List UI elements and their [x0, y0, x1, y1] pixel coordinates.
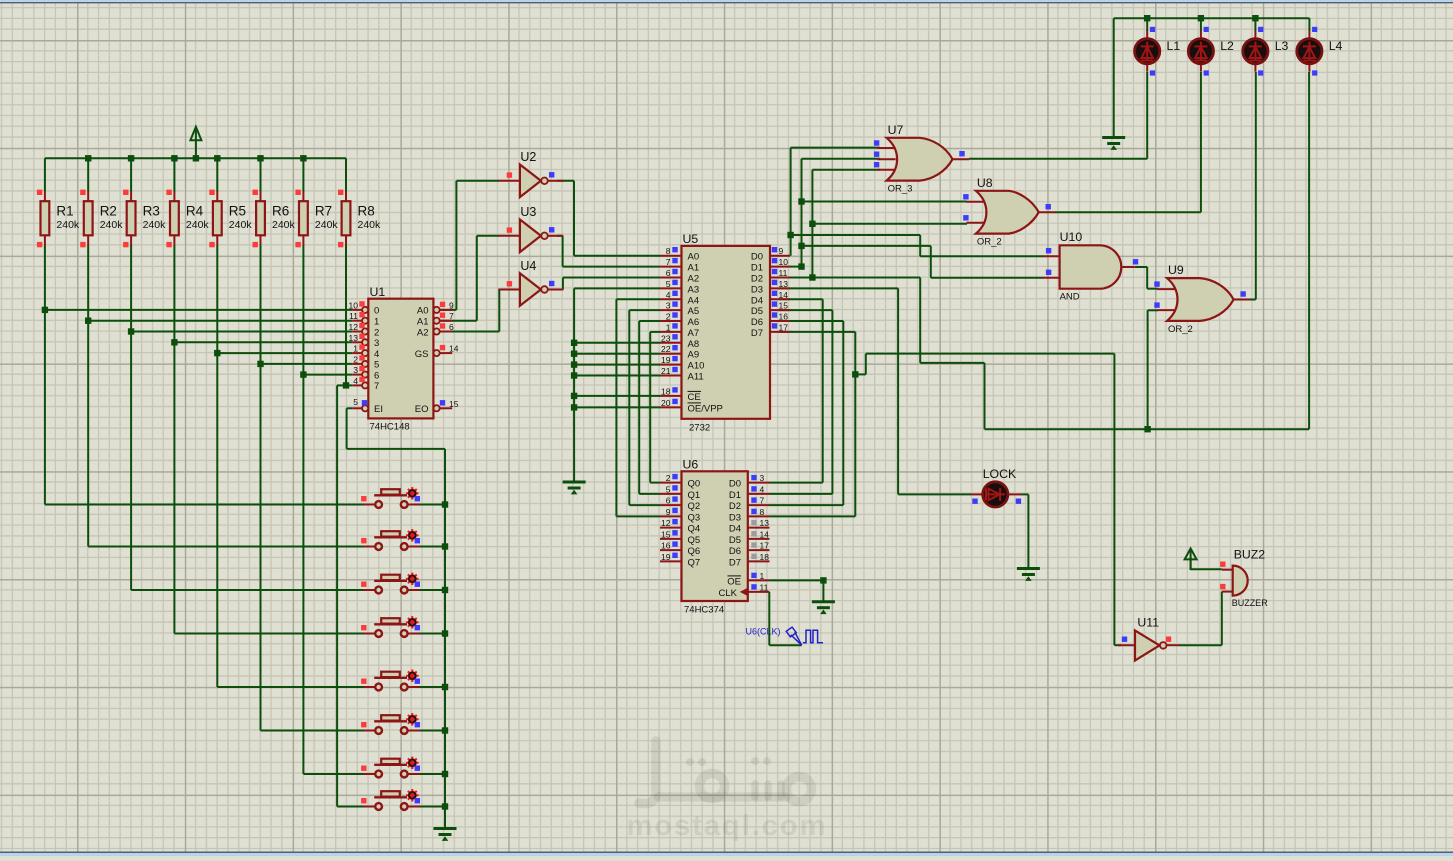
svg-text:19: 19 [661, 552, 671, 562]
svg-text:14: 14 [779, 290, 789, 300]
svg-text:15: 15 [779, 301, 789, 311]
svg-text:240k: 240k [100, 219, 124, 231]
svg-text:20: 20 [661, 398, 671, 408]
svg-text:D7: D7 [751, 328, 763, 339]
svg-text:3: 3 [760, 473, 765, 483]
svg-text:D7: D7 [729, 557, 741, 568]
svg-text:240k: 240k [186, 219, 210, 231]
svg-text:18: 18 [661, 386, 671, 396]
svg-text:D0: D0 [729, 479, 741, 490]
svg-text:OE: OE [727, 576, 741, 587]
svg-text:17: 17 [779, 322, 789, 332]
svg-text:1: 1 [374, 317, 379, 328]
svg-text:U10: U10 [1060, 230, 1083, 244]
svg-text:U11: U11 [1137, 616, 1159, 630]
svg-text:D4: D4 [729, 524, 741, 535]
svg-text:A4: A4 [688, 295, 700, 306]
svg-text:D3: D3 [751, 284, 763, 295]
svg-text:4: 4 [374, 349, 379, 360]
svg-text:5: 5 [374, 360, 379, 371]
svg-text:R7: R7 [315, 204, 332, 219]
svg-text:Q4: Q4 [688, 524, 701, 535]
svg-text:11: 11 [779, 268, 788, 278]
svg-text:L2: L2 [1220, 39, 1234, 53]
svg-text:2732: 2732 [689, 423, 710, 434]
svg-text:22: 22 [661, 344, 671, 354]
svg-text:U5: U5 [683, 232, 699, 246]
svg-text:R1: R1 [56, 204, 73, 219]
svg-text:U6: U6 [683, 458, 699, 472]
svg-text:D5: D5 [729, 535, 741, 546]
svg-text:R3: R3 [143, 204, 160, 219]
svg-text:2: 2 [353, 354, 358, 364]
svg-text:19: 19 [661, 355, 671, 365]
svg-text:Q2: Q2 [688, 501, 701, 512]
svg-text:9: 9 [666, 507, 671, 517]
svg-text:12: 12 [349, 322, 359, 332]
svg-text:5: 5 [353, 397, 358, 407]
svg-text:U3: U3 [520, 205, 536, 219]
svg-text:1: 1 [353, 344, 358, 354]
svg-text:16: 16 [779, 312, 789, 322]
svg-text:8: 8 [760, 507, 765, 517]
svg-text:L4: L4 [1329, 39, 1343, 53]
svg-text:6: 6 [666, 496, 671, 506]
svg-text:L1: L1 [1167, 39, 1181, 53]
svg-text:16: 16 [661, 541, 671, 551]
svg-text:23: 23 [661, 333, 671, 343]
svg-text:7: 7 [374, 381, 379, 392]
svg-text:2: 2 [666, 473, 671, 483]
svg-text:6: 6 [374, 370, 379, 381]
svg-text:A1: A1 [688, 263, 700, 274]
svg-text:EI: EI [374, 404, 383, 415]
svg-text:14: 14 [449, 344, 459, 354]
svg-text:7: 7 [449, 311, 454, 321]
svg-text:D5: D5 [751, 306, 763, 317]
svg-text:A2: A2 [417, 327, 429, 338]
svg-text:BUZZER: BUZZER [1232, 598, 1269, 608]
svg-text:D0: D0 [751, 252, 763, 263]
svg-text:9: 9 [449, 300, 454, 310]
svg-text:3: 3 [374, 338, 379, 349]
svg-text:L3: L3 [1275, 39, 1289, 53]
svg-text:4: 4 [666, 290, 671, 300]
svg-text:0: 0 [374, 306, 379, 317]
svg-text:D1: D1 [751, 263, 763, 274]
svg-text:1: 1 [666, 322, 671, 332]
svg-text:A6: A6 [688, 317, 700, 328]
svg-text:U7: U7 [888, 123, 904, 137]
svg-text:6: 6 [666, 268, 671, 278]
svg-text:R2: R2 [100, 204, 117, 219]
svg-text:15: 15 [449, 399, 459, 409]
svg-text:CE: CE [688, 392, 701, 403]
svg-text:240k: 240k [143, 219, 167, 231]
svg-text:A3: A3 [688, 284, 700, 295]
svg-text:D6: D6 [751, 317, 763, 328]
svg-text:Q3: Q3 [688, 512, 701, 523]
svg-text:5: 5 [666, 484, 671, 494]
svg-text:11: 11 [349, 311, 358, 321]
svg-text:11: 11 [760, 582, 769, 592]
svg-text:A9: A9 [688, 350, 700, 361]
svg-text:mostaql.com: mostaql.com [627, 810, 828, 842]
svg-text:D4: D4 [751, 295, 763, 306]
svg-text:R8: R8 [358, 204, 375, 219]
svg-text:240k: 240k [229, 219, 253, 231]
svg-text:A2: A2 [688, 274, 700, 285]
svg-text:Q0: Q0 [688, 479, 701, 490]
svg-text:OR_2: OR_2 [1168, 324, 1193, 335]
svg-text:13: 13 [779, 279, 789, 289]
svg-text:A0: A0 [417, 306, 429, 317]
svg-text:74HC148: 74HC148 [370, 422, 410, 433]
svg-text:8: 8 [666, 246, 671, 256]
svg-text:2: 2 [666, 312, 671, 322]
svg-text:U2: U2 [520, 150, 536, 164]
svg-text:D2: D2 [729, 501, 741, 512]
svg-text:3: 3 [353, 365, 358, 375]
svg-text:U1: U1 [370, 285, 386, 299]
svg-text:9: 9 [779, 246, 784, 256]
svg-text:7: 7 [666, 257, 671, 267]
svg-text:6: 6 [449, 322, 454, 332]
svg-text:240k: 240k [315, 219, 339, 231]
svg-text:AND: AND [1060, 292, 1080, 303]
svg-text:OR_2: OR_2 [977, 237, 1002, 248]
svg-text:A10: A10 [688, 361, 705, 372]
svg-text:18: 18 [760, 552, 770, 562]
svg-text:12: 12 [661, 518, 671, 528]
svg-text:A8: A8 [688, 339, 700, 350]
svg-text:U8: U8 [977, 176, 993, 190]
svg-text:A7: A7 [688, 328, 700, 339]
svg-text:BUZ2: BUZ2 [1234, 548, 1266, 562]
svg-text:21: 21 [661, 366, 671, 376]
svg-text:13: 13 [760, 518, 770, 528]
svg-text:D6: D6 [729, 546, 741, 557]
svg-text:74HC374: 74HC374 [684, 605, 724, 616]
svg-text:A5: A5 [688, 306, 700, 317]
svg-text:15: 15 [661, 529, 671, 539]
svg-text:14: 14 [760, 529, 770, 539]
svg-text:A1: A1 [417, 317, 429, 328]
svg-text:R6: R6 [272, 204, 289, 219]
svg-text:D2: D2 [751, 274, 763, 285]
svg-text:10: 10 [779, 257, 789, 267]
svg-text:Q5: Q5 [688, 535, 701, 546]
svg-text:R5: R5 [229, 204, 246, 219]
svg-text:OE/VPP: OE/VPP [688, 403, 723, 414]
svg-text:2: 2 [374, 327, 379, 338]
svg-text:D3: D3 [729, 512, 741, 523]
svg-text:LOCK: LOCK [983, 467, 1017, 481]
svg-text:U6(CLK): U6(CLK) [746, 627, 781, 637]
svg-text:10: 10 [349, 300, 359, 310]
svg-text:240k: 240k [56, 219, 80, 231]
svg-text:7: 7 [760, 496, 765, 506]
svg-text:U9: U9 [1168, 263, 1184, 277]
svg-text:EO: EO [415, 404, 429, 415]
svg-text:5: 5 [666, 279, 671, 289]
svg-text:17: 17 [760, 541, 770, 551]
svg-text:Q6: Q6 [688, 546, 701, 557]
svg-text:13: 13 [349, 333, 359, 343]
svg-text:Q1: Q1 [688, 490, 701, 501]
svg-text:Q7: Q7 [688, 557, 701, 568]
svg-text:4: 4 [353, 376, 358, 386]
svg-text:R4: R4 [186, 204, 204, 219]
svg-text:4: 4 [760, 484, 765, 494]
svg-text:GS: GS [415, 349, 429, 360]
svg-text:D1: D1 [729, 490, 741, 501]
svg-text:240k: 240k [358, 219, 382, 231]
svg-text:U4: U4 [520, 259, 536, 273]
svg-text:A0: A0 [688, 252, 700, 263]
svg-text:CLK: CLK [719, 588, 738, 599]
svg-text:A11: A11 [688, 372, 704, 383]
svg-text:3: 3 [666, 301, 671, 311]
svg-text:OR_3: OR_3 [888, 184, 913, 195]
svg-text:1: 1 [760, 571, 765, 581]
svg-text:240k: 240k [272, 219, 296, 231]
